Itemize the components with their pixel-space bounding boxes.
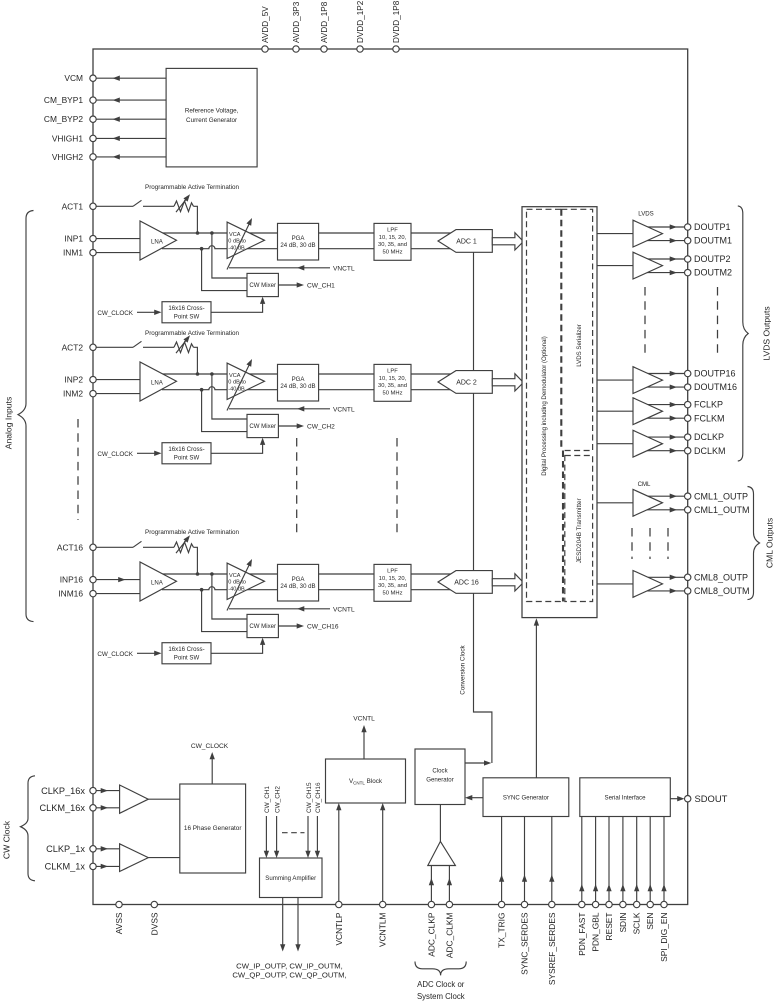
svg-text:VCA: VCA [229,232,241,238]
svg-text:LPF: LPF [387,569,398,575]
svg-text:PGA: PGA [292,576,306,583]
svg-text:24 dB, 30 dB: 24 dB, 30 dB [280,383,315,390]
svg-text:24 dB, 30 dB: 24 dB, 30 dB [280,583,315,590]
svg-text:0 dB to: 0 dB to [228,380,246,386]
svg-text:30, 35, and: 30, 35, and [378,583,407,589]
svg-text:Reference Voltage,: Reference Voltage, [185,108,239,115]
svg-text:LPF: LPF [387,369,398,375]
svg-text:Current Generator: Current Generator [186,117,237,124]
svg-text:16x16 Cross-: 16x16 Cross- [168,646,204,653]
svg-text:AVDD_3P3: AVDD_3P3 [292,1,301,43]
svg-text:CLKM_1x: CLKM_1x [45,862,86,872]
svg-text:Summing Amplifier: Summing Amplifier [265,875,316,882]
svg-text:Programmable Active Terminatio: Programmable Active Termination [145,529,240,536]
svg-text:ADC 16: ADC 16 [454,580,479,587]
svg-text:DVDD_1P8: DVDD_1P8 [392,0,401,43]
svg-text:Generator: Generator [426,777,453,784]
svg-text:CW_CLOCK: CW_CLOCK [191,743,229,750]
svg-text:VHIGH2: VHIGH2 [52,152,84,162]
svg-text:CW Mixer: CW Mixer [249,423,276,430]
svg-text:DCLKM: DCLKM [694,446,726,456]
svg-text:SPI_DIG_EN: SPI_DIG_EN [659,913,669,962]
svg-text:PGA: PGA [292,235,306,242]
svg-text:50 MHz: 50 MHz [383,249,403,255]
svg-text:0 dB to: 0 dB to [228,239,246,245]
svg-text:Point SW: Point SW [174,313,200,320]
svg-text:AVDD_5V: AVDD_5V [261,6,270,43]
svg-text:LNA: LNA [151,238,164,245]
svg-text:Conversion Clock: Conversion Clock [460,644,467,694]
svg-text:JESD204B Transmitter: JESD204B Transmitter [576,497,583,563]
svg-text:Point SW: Point SW [174,454,200,461]
svg-text:CW_CH1: CW_CH1 [307,283,335,290]
svg-text:VCNTL: VCNTL [353,716,375,723]
svg-text:Programmable Active Terminatio: Programmable Active Termination [145,184,240,191]
svg-text:LVDS Outputs: LVDS Outputs [762,306,772,360]
svg-text:50 MHz: 50 MHz [383,390,403,396]
svg-text:CW_CLOCK: CW_CLOCK [97,451,133,458]
svg-text:ADC 2: ADC 2 [456,380,477,387]
svg-text:ADC_CLKP: ADC_CLKP [426,912,436,957]
svg-text:CML1_OUTM: CML1_OUTM [694,505,750,515]
svg-text:LNA: LNA [151,379,164,386]
svg-text:ADC 1: ADC 1 [456,239,477,246]
svg-text:SYNC_SERDES: SYNC_SERDES [520,912,530,975]
svg-text:VCA: VCA [229,373,241,379]
svg-text:VCA: VCA [229,573,241,579]
svg-text:CW_CH15: CW_CH15 [306,782,313,813]
svg-text:VCNTL: VCNTL [333,606,355,613]
svg-text:CW_CH16: CW_CH16 [315,782,322,813]
svg-text:VHIGH1: VHIGH1 [52,133,84,143]
svg-text:16x16 Cross-: 16x16 Cross- [168,305,204,312]
svg-text:SDOUT: SDOUT [695,793,728,804]
svg-text:CW_QP_OUTP, CW_QP_OUTM,: CW_QP_OUTP, CW_QP_OUTM, [232,970,346,979]
svg-text:VCM: VCM [64,73,83,83]
svg-text:0 dB to: 0 dB to [228,580,246,586]
svg-text:SYSREF_SERDES: SYSREF_SERDES [547,912,557,985]
svg-text:SDIN: SDIN [618,913,628,933]
svg-text:INP16: INP16 [60,575,84,585]
svg-text:24 dB, 30 dB: 24 dB, 30 dB [280,242,315,249]
svg-text:TX_TRIG: TX_TRIG [497,913,507,948]
svg-text:FCLKP: FCLKP [694,400,723,410]
svg-text:Serial Interface: Serial Interface [605,795,647,802]
svg-text:CW_IP_OUTP, CW_IP_OUTM,: CW_IP_OUTP, CW_IP_OUTM, [236,961,343,970]
svg-text:ADC Clock or: ADC Clock or [417,980,465,989]
svg-text:VNCTL: VNCTL [333,265,355,272]
svg-text:CW_CH2: CW_CH2 [274,786,281,813]
svg-text:System Clock: System Clock [417,992,465,1001]
svg-text:CW_CH2: CW_CH2 [307,424,335,431]
svg-text:SYNC Generator: SYNC Generator [503,795,549,802]
svg-text:VCNTLP: VCNTLP [334,912,344,945]
svg-text:Point SW: Point SW [174,654,200,661]
svg-text:16 Phase Generator: 16 Phase Generator [184,825,242,832]
svg-text:DOUTP1: DOUTP1 [694,222,731,232]
svg-text:AVSS: AVSS [114,912,124,934]
svg-text:50 MHz: 50 MHz [383,590,403,596]
svg-text:Analog Inputs: Analog Inputs [4,397,14,450]
svg-text:Programmable Active Terminatio: Programmable Active Termination [145,330,240,337]
svg-text:PGA: PGA [292,376,306,383]
svg-text:CW_CH16: CW_CH16 [307,624,339,631]
svg-text:LPF: LPF [387,228,398,234]
svg-text:DOUTM1: DOUTM1 [694,236,732,246]
svg-text:10, 15, 20,: 10, 15, 20, [379,376,407,382]
svg-text:LVDS: LVDS [638,211,653,218]
svg-text:CML1_OUTP: CML1_OUTP [694,491,748,501]
svg-text:DOUTM2: DOUTM2 [694,268,732,278]
svg-text:30, 35, and: 30, 35, and [378,242,407,248]
svg-text:SEN: SEN [645,913,655,930]
svg-text:CW Mixer: CW Mixer [249,282,276,289]
svg-text:DOUTP16: DOUTP16 [694,369,736,379]
svg-text:CML: CML [638,481,651,488]
svg-text:INP2: INP2 [64,375,83,385]
svg-text:CW_CLOCK: CW_CLOCK [97,651,133,658]
svg-text:DVSS: DVSS [149,912,159,935]
svg-text:CW_CLOCK: CW_CLOCK [97,310,133,317]
svg-text:INM16: INM16 [58,589,83,599]
svg-text:SCLK: SCLK [632,912,642,934]
svg-text:CML8_OUTP: CML8_OUTP [694,572,748,582]
svg-text:INM2: INM2 [63,389,83,399]
svg-text:LVDS Serializer: LVDS Serializer [576,324,583,367]
svg-text:DOUTM16: DOUTM16 [694,382,737,392]
svg-text:CW_CH1: CW_CH1 [264,786,271,813]
svg-text:CML8_OUTM: CML8_OUTM [694,586,750,596]
svg-text:10, 15, 20,: 10, 15, 20, [379,576,407,582]
svg-text:DOUTP2: DOUTP2 [694,254,731,264]
svg-text:CLKP_1x: CLKP_1x [46,844,85,854]
svg-text:10, 15, 20,: 10, 15, 20, [379,235,407,241]
svg-text:CM_BYP2: CM_BYP2 [44,114,83,124]
svg-text:Clock: Clock [432,768,448,775]
svg-text:CLKM_16x: CLKM_16x [40,803,86,813]
svg-text:VCNTLM: VCNTLM [378,912,388,946]
svg-text:CW Clock: CW Clock [2,820,12,859]
svg-text:ACT1: ACT1 [62,201,84,211]
svg-text:AVDD_1P8: AVDD_1P8 [320,1,329,43]
svg-text:PDN_GBL: PDN_GBL [591,912,601,951]
svg-text:CM_BYP1: CM_BYP1 [44,95,83,105]
svg-text:30, 35, and: 30, 35, and [378,383,407,389]
svg-text:Digital Processing including D: Digital Processing including Demodulator… [541,336,548,476]
svg-text:ACT2: ACT2 [62,342,84,352]
svg-text:ACT16: ACT16 [57,542,83,552]
svg-text:INM1: INM1 [63,248,83,258]
svg-text:FCLKM: FCLKM [694,413,725,423]
svg-text:DVDD_1P2: DVDD_1P2 [356,0,365,43]
svg-text:DCLKP: DCLKP [694,432,724,442]
svg-text:ADC_CLKM: ADC_CLKM [444,912,454,958]
svg-text:INP1: INP1 [64,234,83,244]
svg-text:LNA: LNA [151,579,164,586]
svg-text:VCNTL: VCNTL [333,406,355,413]
svg-text:PDN_FAST: PDN_FAST [577,913,587,956]
svg-text:CLKP_16x: CLKP_16x [41,786,85,796]
svg-text:CML Outputs: CML Outputs [765,518,775,568]
svg-text:16x16 Cross-: 16x16 Cross- [168,446,204,453]
svg-text:CW Mixer: CW Mixer [249,623,276,630]
svg-text:RESET: RESET [604,913,614,941]
